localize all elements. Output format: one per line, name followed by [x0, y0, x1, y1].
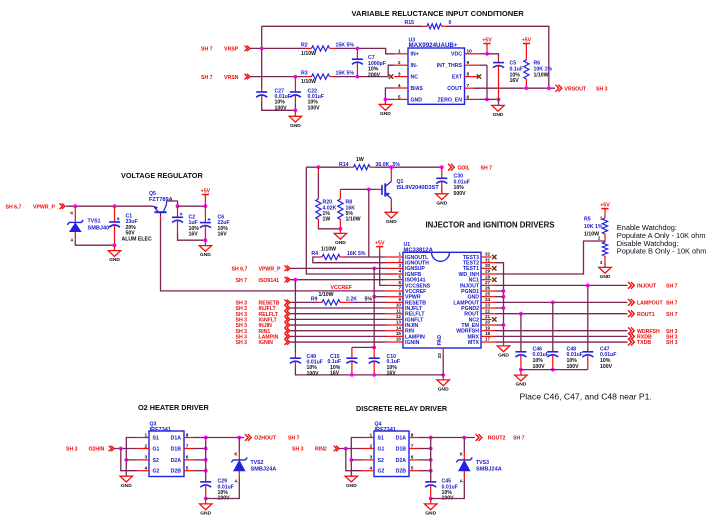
pin 29 stub of U1: [481, 273, 496, 275]
wire R9 to RESETB pin: [352, 301, 386, 303]
capacitor C6: [200, 218, 211, 228]
svg-text:2: 2: [398, 257, 401, 262]
svg-text:ZERO_EN: ZERO_EN: [437, 97, 462, 103]
pin stub C2 top: [177, 206, 179, 217]
pin stub R15 right: [442, 25, 447, 27]
wire Q5 collector to +5V rail: [167, 201, 178, 206]
svg-text:16V: 16V: [510, 78, 520, 84]
wire +5V to VCCSENS: [380, 253, 386, 285]
pin stub C15 bottom: [351, 362, 353, 375]
svg-text:27: 27: [485, 280, 491, 285]
svg-text:SH 7: SH 7: [201, 75, 213, 81]
svg-text:IN-: IN-: [411, 63, 418, 69]
svg-text:SH 7: SH 7: [666, 283, 678, 289]
offpage connector VPWR_P: [60, 203, 65, 209]
svg-text:13: 13: [396, 320, 402, 325]
pin 22 stub of U1: [481, 313, 496, 315]
svg-text:100V: 100V: [600, 364, 613, 370]
wire G1 to G2 of Q3: [121, 449, 137, 471]
svg-text:+5V: +5V: [375, 240, 385, 246]
svg-text:1/10W: 1/10W: [534, 72, 549, 78]
wire INJFLT row: [291, 307, 386, 309]
resistor R5 section A: [602, 218, 607, 234]
svg-text:D1A: D1A: [171, 435, 182, 441]
junction ZERO_EN C5: [497, 98, 501, 102]
offpage connector LAMPOUT: [628, 299, 634, 306]
pin 1 stub of U1: [386, 256, 404, 258]
wire S2 of Q3: [126, 459, 137, 461]
pin stub C1 top: [114, 206, 116, 222]
ground below C5: [492, 105, 504, 118]
junction VRSN C22: [294, 75, 298, 79]
svg-text:GND: GND: [121, 483, 132, 489]
svg-text:2: 2: [398, 60, 401, 66]
svg-text:3: 3: [398, 72, 401, 78]
wire VRSP to R2: [250, 47, 306, 49]
wire ROUT2 to TVS3: [463, 438, 465, 452]
svg-text:16V: 16V: [218, 232, 228, 238]
svg-text:ISO9141: ISO9141: [259, 278, 280, 284]
+5V supply at U3 VDC: [482, 37, 492, 54]
wire drain bus to cap of Q3: [205, 471, 207, 482]
svg-text:GND: GND: [109, 257, 120, 263]
offpage connector VPWR_P middle: [285, 266, 290, 272]
wire PGND1: [496, 290, 504, 292]
ground below C46: [515, 370, 527, 388]
junction C10 gnd rail: [372, 373, 376, 377]
svg-text:28: 28: [485, 274, 491, 279]
svg-text:21: 21: [485, 314, 491, 319]
svg-text:2.2K: 2.2K: [346, 296, 357, 302]
ground below R5: [599, 267, 611, 280]
junction drain 448 of Q4: [429, 447, 433, 451]
svg-text:1W: 1W: [323, 217, 331, 223]
svg-text:1/10W: 1/10W: [319, 292, 334, 298]
pin stub TVS3 top: [463, 452, 465, 460]
pin 2 stub of U3: [394, 64, 408, 66]
svg-text:200V: 200V: [368, 72, 381, 78]
pin 25 stub of U1: [481, 296, 496, 298]
op-amp U3 MAX9924UAUB+ body: [408, 48, 465, 104]
svg-text:100V: 100V: [308, 105, 321, 111]
svg-text:100V: 100V: [567, 364, 580, 370]
wire IGNIN row: [291, 341, 386, 343]
svg-text:SH 7: SH 7: [666, 300, 678, 306]
pin 3 stub of U3: [394, 76, 408, 78]
svg-text:COUT: COUT: [447, 86, 463, 92]
pin 5 stub of U1: [386, 279, 404, 281]
svg-text:D2B: D2B: [396, 469, 407, 475]
wire Q5 base to VCCREF: [161, 220, 386, 291]
svg-text:1/10W: 1/10W: [346, 217, 361, 223]
svg-text:3: 3: [398, 263, 401, 268]
pin stub C30 top: [441, 167, 443, 178]
wire ROUT to C46: [520, 314, 522, 352]
pin 27 stub of U1: [481, 284, 496, 286]
svg-text:SMBJ24A: SMBJ24A: [476, 467, 502, 473]
svg-text:PAD: PAD: [437, 335, 443, 346]
svg-text:3: 3: [145, 455, 148, 461]
pin stub C22 top: [294, 77, 296, 92]
pin 16 stub of U1: [386, 341, 404, 343]
ground below C29: [200, 499, 212, 517]
wire ROUT row: [496, 313, 628, 315]
pin 21 stub of U1: [481, 318, 492, 320]
wire C22 to gnd: [294, 104, 296, 110]
svg-text:GND: GND: [386, 219, 397, 225]
wire R5 to gnd: [604, 263, 606, 268]
wire drain row to output of Q3: [206, 437, 244, 439]
pin 4 stub of Q3: [137, 470, 149, 472]
svg-text:VARIABLE RELUCTANCE INPUT COND: VARIABLE RELUCTANCE INPUT CONDITIONER: [352, 9, 525, 18]
svg-text:16K 5%: 16K 5%: [347, 251, 366, 257]
svg-text:6: 6: [398, 280, 401, 285]
pin 10 stub of U1: [386, 307, 404, 309]
svg-text:2: 2: [145, 443, 148, 449]
svg-text:8: 8: [467, 72, 470, 78]
pin 14 stub of U1: [386, 330, 404, 332]
svg-text:10: 10: [467, 49, 473, 55]
ground below C6: [199, 241, 211, 259]
pin stub C47 bottom: [587, 355, 589, 369]
ground below C22: [289, 110, 301, 129]
svg-text:MTX: MTX: [468, 340, 479, 346]
wire coil row left: [306, 166, 348, 168]
offpage connector TXDB: [628, 339, 634, 346]
pin 8 stub of Q3: [184, 437, 194, 439]
pin 6 stub of U1: [386, 284, 404, 286]
svg-text:1: 1: [398, 252, 401, 257]
pin 6 stub of Q3: [184, 459, 194, 461]
wire drain 460 of Q4: [419, 459, 431, 461]
junction VDC +5V: [485, 52, 489, 56]
svg-text:TXDB: TXDB: [637, 340, 651, 346]
wire INJIN row: [291, 324, 386, 326]
svg-text:VRSP: VRSP: [224, 47, 239, 53]
svg-text:D2A: D2A: [396, 458, 407, 464]
wire drain 460 of Q3: [194, 459, 206, 461]
capacitor C22: [290, 92, 301, 97]
wire R20 upper: [317, 174, 319, 199]
+5V supply at VCCSENS: [375, 240, 385, 253]
junction feedback COUT: [547, 86, 551, 90]
svg-text:+5V: +5V: [482, 37, 492, 43]
pin 6 stub of Q4: [409, 459, 419, 461]
wire IGNSUP vertical to IGNFB: [306, 167, 396, 274]
pin stub R15 left: [422, 25, 427, 27]
pin stub C7 top: [356, 48, 358, 59]
offpage connector WDRFSH: [628, 327, 634, 334]
wire VRSN to R3: [250, 76, 306, 78]
svg-text:R5: R5: [584, 217, 591, 223]
offpage connector VRSN: [245, 74, 250, 80]
svg-text:SH 7: SH 7: [666, 312, 678, 318]
pin stub C49 bottom: [294, 362, 296, 368]
svg-text:8: 8: [186, 432, 189, 438]
wire drain 438 of Q4: [419, 437, 431, 439]
svg-text:TVS1: TVS1: [88, 219, 101, 225]
ic U1 MC33812A body: [403, 252, 481, 348]
+5V supply at R6: [522, 37, 532, 60]
junction ISO9141 C49: [294, 278, 298, 282]
wire drain 471 of Q4: [419, 470, 431, 472]
pin 28 stub of U1: [481, 279, 492, 281]
svg-text:R3: R3: [301, 71, 308, 77]
svg-text:SH 7: SH 7: [513, 436, 525, 442]
svg-text:4: 4: [370, 466, 373, 472]
wire Q1 emitter to gnd: [390, 207, 392, 212]
svg-text:SH 7: SH 7: [236, 278, 248, 284]
junction ZERO_EN 1: [485, 98, 489, 102]
pin 4 stub of U3: [394, 87, 408, 89]
ground below U3: [379, 104, 391, 117]
wire LAMPIN row: [291, 335, 386, 337]
svg-text:FZT789A: FZT789A: [149, 197, 173, 203]
svg-text:VRSOUT: VRSOUT: [565, 87, 587, 93]
wire G1 to G2 of Q4: [346, 449, 362, 471]
pin 1 stub of U3: [394, 53, 408, 55]
diode TVS3: [456, 458, 472, 471]
wire INJOUT row: [496, 284, 628, 286]
wire O2HIN to G1: [114, 448, 137, 450]
wire VDC to +5V: [480, 53, 488, 55]
ground below Q3 sources: [120, 476, 132, 489]
pin stub C2 bottom: [177, 221, 179, 233]
wire drain bus of Q4: [430, 438, 432, 471]
pin stub C45 bottom: [430, 485, 432, 498]
wire C5 to ground: [498, 99, 500, 105]
svg-text:25: 25: [485, 291, 491, 296]
wire R15 right segment: [447, 26, 549, 88]
wire BIAS to GND pin: [385, 88, 394, 99]
wire TXDB row: [496, 341, 628, 343]
pin 3 stub of U1: [386, 267, 404, 269]
svg-text:SH 3: SH 3: [596, 87, 608, 93]
pin stub C30 bottom: [441, 182, 443, 188]
svg-text:24: 24: [485, 297, 491, 302]
pin stub R14 right: [370, 166, 375, 168]
junction VRSP feedback: [260, 47, 264, 51]
wire INT_THRS down to ZERO_EN: [486, 65, 488, 99]
pin 19 stub of U1: [481, 330, 496, 332]
wire TVS2 to gnd rail: [206, 479, 240, 499]
svg-text:O2 HEATER DRIVER: O2 HEATER DRIVER: [138, 403, 210, 412]
offpage connector RXDB: [628, 333, 634, 340]
junction C1 gnd rail: [113, 243, 117, 247]
wire PAD to gnd rail: [442, 354, 444, 375]
no-connect on U1 pin 32: [492, 255, 496, 259]
offpage connector IGNFLT: [285, 317, 290, 323]
no-connect on U3 pin 8 EXT: [477, 74, 481, 78]
pin 18 stub of U1: [481, 335, 496, 337]
pin 6 stub of U3: [465, 98, 480, 100]
svg-text:33: 33: [437, 353, 443, 359]
resistor R6: [524, 60, 529, 79]
pin stub C10 top: [373, 347, 375, 358]
svg-text:6: 6: [411, 455, 414, 461]
pin 26 stub of U1: [481, 290, 496, 292]
svg-text:SH 3: SH 3: [292, 447, 304, 453]
junction ROUT C46: [519, 312, 523, 316]
offpage connector INJFLT: [285, 305, 290, 311]
svg-text:VOLTAGE REGULATOR: VOLTAGE REGULATOR: [121, 171, 203, 180]
svg-text:G2: G2: [153, 469, 160, 475]
junction IGNSUP VPWR: [372, 266, 376, 270]
capacitor C1: [109, 217, 120, 227]
svg-text:D2A: D2A: [171, 458, 182, 464]
pin stub C46 bottom: [520, 355, 522, 369]
pin stub R6 bottom: [525, 79, 527, 88]
svg-text:D1B: D1B: [396, 446, 407, 452]
pin stub R2 right: [330, 47, 335, 49]
junction S1 S2 of Q3: [124, 458, 128, 462]
svg-text:1/10W: 1/10W: [584, 231, 599, 237]
pin 3 stub of Q3: [137, 459, 149, 461]
offpage connector ROUT2: [476, 434, 482, 441]
pin 2 stub of Q3: [137, 448, 149, 450]
svg-text:GND: GND: [290, 123, 301, 129]
wire gate to IGNOUTL: [368, 189, 370, 257]
svg-text:15K 5%: 15K 5%: [336, 43, 355, 49]
wire VPWR_P to IGNSUP: [291, 267, 386, 269]
svg-text:COIL: COIL: [458, 166, 471, 172]
junction C30: [440, 165, 444, 169]
wire C27 vertical: [261, 48, 263, 88]
wire R5 mid joint: [604, 234, 606, 242]
pin stub R8 top: [339, 189, 341, 199]
offpage connector LAMPIN: [285, 334, 290, 340]
svg-text:GND: GND: [335, 240, 346, 246]
junction C45 gnd: [429, 497, 433, 501]
pin stub R3 left: [306, 76, 312, 78]
svg-text:7: 7: [467, 83, 470, 89]
pin 15 stub of U1: [386, 335, 404, 337]
pin 12 stub of U1: [386, 318, 404, 320]
junction drain 438 of Q4: [429, 436, 433, 440]
wire RESETB to R9: [291, 301, 318, 303]
svg-text:SMBJ40: SMBJ40: [88, 225, 110, 231]
pin 4 stub of Q4: [362, 470, 374, 472]
wire Q5 base down: [160, 212, 162, 216]
no-connect on U1 pin 30: [492, 266, 496, 270]
pin stub R2 left: [306, 47, 312, 49]
junction drain 460 of Q3: [204, 458, 208, 462]
pin stub C6 bottom: [204, 226, 206, 240]
svg-text:100V: 100V: [533, 364, 546, 370]
svg-text:GND: GND: [200, 511, 211, 517]
junction drain 460 of Q4: [429, 458, 433, 462]
svg-text:ALUM ELEC: ALUM ELEC: [122, 236, 153, 242]
junction PAD gnd rail: [441, 373, 445, 377]
pin 20 stub of U1: [481, 324, 496, 326]
svg-text:SH 7: SH 7: [481, 166, 493, 172]
capacitor C5: [493, 63, 504, 68]
ground below C1: [108, 246, 120, 264]
capacitor C10: [369, 358, 380, 363]
svg-text:TVS3: TVS3: [476, 460, 489, 466]
pin stub gnd chain: [503, 341, 505, 346]
wire gate row: [340, 188, 375, 190]
pin stub TVS2 bottom: [238, 471, 240, 479]
offpage connector ROUT1: [628, 310, 634, 317]
svg-text:MC33812A: MC33812A: [404, 248, 434, 254]
offpage connector O2HIN: [109, 446, 114, 452]
pin 7 stub of Q4: [409, 448, 419, 450]
wire +5V rail to C6: [178, 205, 206, 207]
pin 10 stub of U3: [465, 53, 480, 55]
wire R4 to IGNOUTH: [313, 257, 386, 263]
svg-text:S2: S2: [378, 458, 384, 464]
svg-text:VPWR_P: VPWR_P: [259, 267, 281, 273]
wire C27 to gnd rail: [262, 101, 296, 110]
svg-text:31: 31: [485, 257, 491, 262]
junction C15 gnd rail: [350, 373, 354, 377]
wire GND pin: [496, 296, 504, 298]
junction G1 G2 of Q3: [119, 447, 123, 451]
wire R4 to IGNOUTL: [345, 256, 386, 258]
pin 23 stub of U1: [481, 307, 496, 309]
pin stub R4 right: [340, 256, 345, 258]
pin 9 stub of U3: [465, 64, 480, 66]
svg-text:Place C46, C47, and C48 near P: Place C46, C47, and C48 near P1.: [520, 391, 652, 401]
junction output TVS of Q4: [462, 436, 466, 440]
transistor Q5 FZT789A: [153, 201, 166, 212]
pin 1 stub of Q4: [362, 437, 374, 439]
svg-text:17: 17: [485, 337, 491, 342]
svg-text:4: 4: [145, 466, 148, 472]
pin 5 stub of U3: [394, 98, 408, 100]
svg-text:14: 14: [396, 325, 402, 330]
pin 17 stub of U1: [481, 341, 496, 343]
svg-text:+5V: +5V: [201, 188, 211, 194]
svg-text:15: 15: [396, 331, 402, 336]
junction VPWR vertical: [372, 295, 376, 299]
svg-text:O2HIN: O2HIN: [89, 447, 105, 453]
wire drain row to output of Q4: [431, 437, 475, 439]
pin stub C5 bottom: [498, 66, 500, 99]
ground below C30: [436, 194, 448, 207]
+5V supply at R5: [600, 202, 610, 218]
wire O2HOUT to TVS2: [238, 438, 240, 452]
resistor R8: [338, 199, 343, 219]
transistor Q1 ISL9V2040D3ST: [382, 182, 391, 199]
svg-text:7: 7: [411, 443, 414, 449]
junction gnd rail C22: [294, 108, 298, 112]
offpage connector ISO9141: [285, 277, 290, 283]
pin stub TVS2 top: [238, 452, 240, 460]
pin 11 stub of U1: [386, 313, 404, 315]
+5V supply at C6: [201, 188, 211, 206]
pin 1 stub of Q3: [137, 437, 149, 439]
svg-text:GND: GND: [498, 353, 509, 359]
pin 8 stub of Q4: [409, 437, 419, 439]
wire IGNFLT row: [291, 318, 386, 320]
junction C46 rail: [519, 368, 523, 372]
svg-text:+5V: +5V: [522, 37, 532, 43]
svg-text:7: 7: [398, 286, 401, 291]
svg-text:GND: GND: [425, 511, 436, 517]
pin stub C49 top: [294, 353, 296, 359]
svg-text:INJECTOR and IGNITION DRIVERS: INJECTOR and IGNITION DRIVERS: [426, 221, 555, 230]
resistor R5 section B: [602, 242, 607, 256]
junction INJOUT C47: [586, 283, 590, 287]
pin 8 stub of U3: [465, 76, 480, 78]
svg-text:1: 1: [370, 432, 373, 438]
pin stub R8 bottom: [339, 219, 341, 229]
capacitor C29: [200, 482, 211, 487]
wire drain bus to cap of Q4: [430, 471, 432, 482]
wire VRSP feedback left vertical: [261, 26, 263, 48]
